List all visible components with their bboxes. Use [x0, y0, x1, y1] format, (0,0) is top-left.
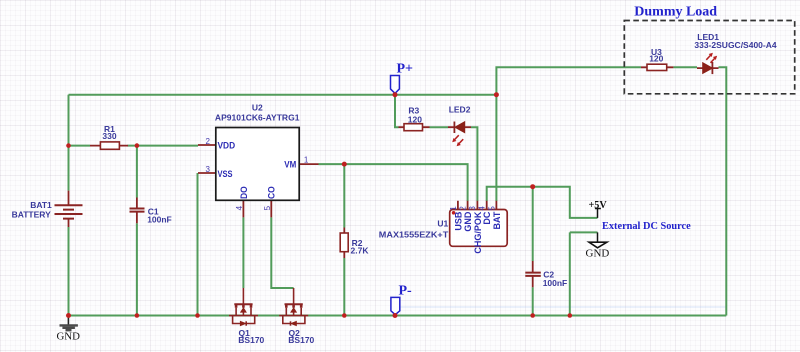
svg-text:VDD: VDD — [218, 141, 236, 151]
svg-text:3: 3 — [468, 206, 477, 211]
svg-text:5: 5 — [487, 206, 496, 211]
svg-text:CO: CO — [267, 186, 277, 199]
svg-text:U2: U2 — [252, 102, 263, 112]
svg-text:3: 3 — [206, 165, 211, 174]
svg-text:USB: USB — [453, 211, 463, 231]
svg-text:BAT: BAT — [492, 211, 502, 229]
svg-text:GND: GND — [586, 248, 610, 260]
svg-text:4: 4 — [235, 205, 244, 210]
svg-text:DO: DO — [239, 186, 249, 199]
svg-text:1: 1 — [449, 206, 458, 211]
svg-text:MAX1555EZK+T: MAX1555EZK+T — [379, 229, 449, 239]
svg-text:P-: P- — [399, 284, 413, 299]
svg-text:120: 120 — [649, 54, 663, 64]
svg-text:1: 1 — [304, 155, 309, 164]
svg-text:AP9101CK6-AYTRG1: AP9101CK6-AYTRG1 — [215, 113, 300, 123]
svg-text:VM: VM — [284, 159, 296, 169]
svg-text:100nF: 100nF — [147, 214, 172, 224]
svg-text:BATTERY: BATTERY — [12, 210, 52, 220]
svg-text:120: 120 — [408, 114, 422, 124]
svg-text:BAT1: BAT1 — [30, 200, 52, 210]
svg-text:2: 2 — [459, 206, 468, 211]
svg-text:DC: DC — [482, 211, 492, 224]
svg-text:330: 330 — [102, 131, 116, 141]
svg-text:BS170: BS170 — [288, 335, 314, 345]
svg-text:GND: GND — [56, 331, 80, 343]
svg-text:LED2: LED2 — [449, 105, 471, 115]
svg-text:+5V: +5V — [589, 200, 608, 211]
svg-text:Dummy Load: Dummy Load — [634, 4, 717, 19]
svg-text:4: 4 — [478, 206, 487, 211]
svg-text:2.7K: 2.7K — [351, 246, 370, 256]
svg-text:2: 2 — [206, 137, 211, 146]
svg-text:P+: P+ — [397, 62, 414, 77]
svg-text:VSS: VSS — [218, 169, 233, 179]
svg-text:5: 5 — [263, 205, 272, 210]
svg-text:BS170: BS170 — [238, 335, 264, 345]
svg-text:U1: U1 — [437, 219, 448, 229]
svg-text:GND: GND — [463, 211, 473, 232]
svg-text:External DC Source: External DC Source — [602, 220, 691, 232]
svg-text:100nF: 100nF — [543, 278, 568, 288]
svg-text:333-2SUGC/S400-A4: 333-2SUGC/S400-A4 — [694, 40, 776, 50]
